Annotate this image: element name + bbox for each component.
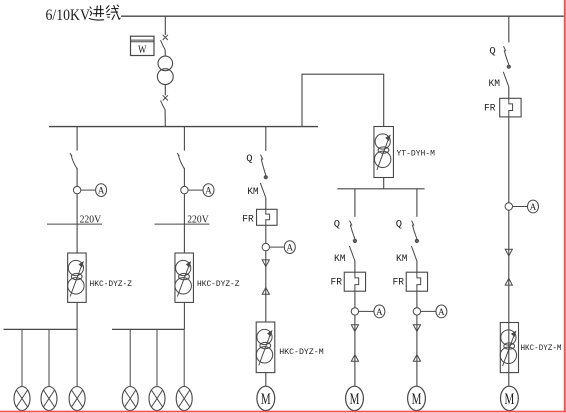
svg-text:HKC-DYZ-M: HKC-DYZ-M <box>521 343 562 353</box>
svg-text:A: A <box>438 308 445 318</box>
svg-text:220V: 220V <box>187 214 209 225</box>
svg-text:M: M <box>505 391 515 408</box>
svg-text:6/10KV: 6/10KV <box>46 7 91 24</box>
svg-text:A: A <box>205 187 212 197</box>
svg-text:FR: FR <box>393 278 405 289</box>
svg-text:220V: 220V <box>80 214 102 225</box>
svg-text:A: A <box>376 308 383 318</box>
svg-text:HKC-DYZ-M: HKC-DYZ-M <box>279 347 324 357</box>
svg-text:A: A <box>98 187 105 197</box>
svg-text:M: M <box>261 391 271 408</box>
svg-text:FR: FR <box>331 278 343 289</box>
svg-text:KM: KM <box>247 187 259 198</box>
svg-text:FR: FR <box>242 214 254 225</box>
svg-text:Q: Q <box>334 220 340 231</box>
svg-text:A: A <box>287 244 294 254</box>
svg-text:Q: Q <box>396 220 402 231</box>
svg-text:Q: Q <box>246 154 252 165</box>
svg-text:M: M <box>350 391 360 408</box>
svg-text:KM: KM <box>396 254 408 265</box>
svg-text:HKC-DYZ-Z: HKC-DYZ-Z <box>197 279 240 289</box>
svg-text:A: A <box>530 203 537 213</box>
svg-text:FR: FR <box>484 103 496 114</box>
svg-text:HKC-DYZ-Z: HKC-DYZ-Z <box>90 279 133 289</box>
svg-text:KM: KM <box>489 79 501 90</box>
svg-text:KM: KM <box>334 254 346 265</box>
svg-text:YT-DYH-M: YT-DYH-M <box>397 148 436 158</box>
svg-text:Q: Q <box>489 46 495 57</box>
svg-text:W: W <box>138 44 147 56</box>
svg-text:M: M <box>412 391 422 408</box>
